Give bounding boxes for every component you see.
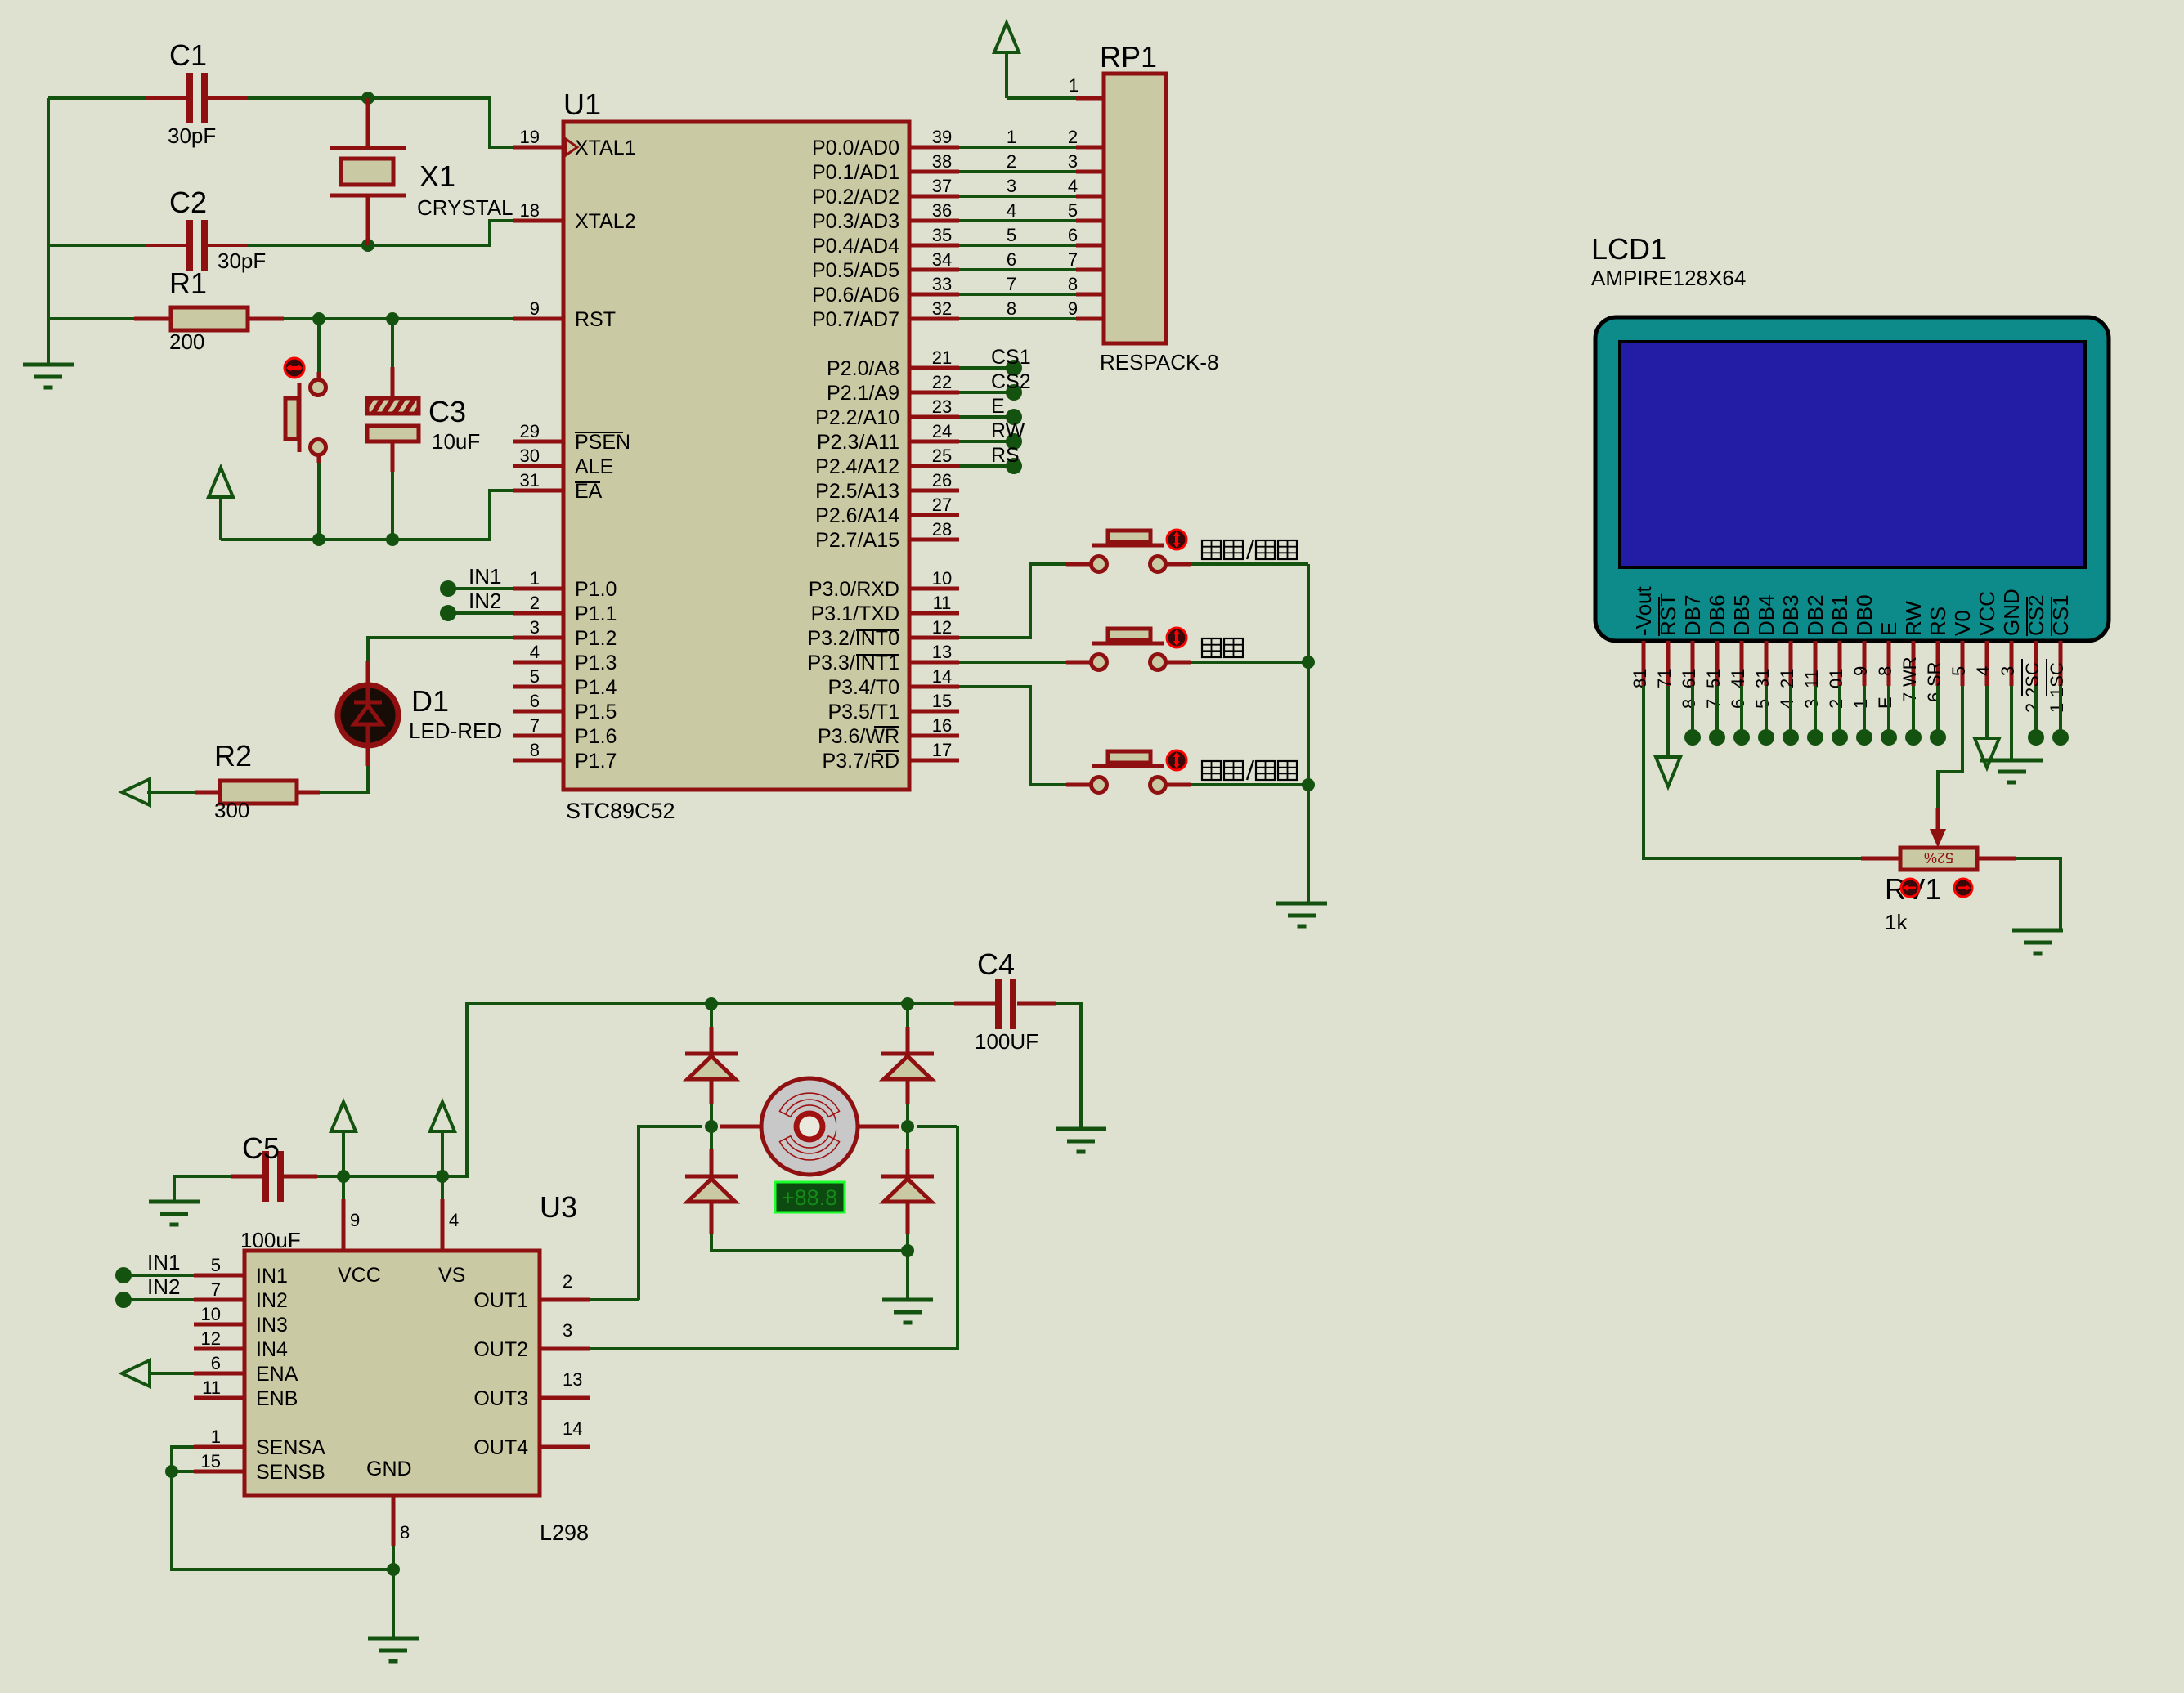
svg-text:1: 1 [2047, 703, 2067, 713]
power arrow down LCD VCC [1985, 686, 1989, 738]
svg-text:R1: R1 [169, 266, 207, 300]
pin 4 VS U3 [441, 1199, 445, 1251]
pin 1 RP1 [1076, 96, 1104, 101]
svg-text:01: 01 [1826, 669, 1846, 688]
svg-text:14: 14 [932, 666, 952, 687]
svg-text:4: 4 [1007, 200, 1016, 221]
svg-text:P0.7/AD7: P0.7/AD7 [812, 308, 899, 331]
wire LCD DB5 [1740, 686, 1743, 737]
ground buttons [1276, 902, 1327, 906]
pin 14 OUT4 U3 [540, 1445, 590, 1449]
svg-text:33: 33 [932, 274, 952, 294]
pin 25 P2.4/A12 U1 [909, 464, 959, 468]
svg-text:RS: RS [1926, 607, 1950, 636]
resistor R2 [296, 791, 320, 795]
pin 33 P0.6/AD6 U1 [909, 293, 959, 297]
svg-text:OUT1: OUT1 [473, 1289, 528, 1312]
pin 15 SENSB U3 [194, 1470, 244, 1474]
transistor-driver U3 body [244, 1251, 540, 1495]
pin 35 P0.4/AD4 U1 [909, 244, 959, 248]
wire D1 to R2 [366, 743, 370, 766]
ground RV1 [2012, 929, 2063, 933]
power arrow RP1 [1005, 51, 1008, 98]
svg-text:4: 4 [449, 1210, 459, 1230]
svg-text:6: 6 [530, 691, 540, 711]
svg-text:U3: U3 [540, 1190, 577, 1224]
pin 6 ENA U3 [194, 1372, 244, 1376]
svg-text:1: 1 [1007, 127, 1016, 147]
svg-text:9: 9 [350, 1210, 360, 1230]
wire IN2 U3 [123, 1298, 194, 1301]
svg-text:RW: RW [991, 419, 1025, 442]
svg-text:DB1: DB1 [1827, 594, 1852, 636]
svg-text:P2.6/A14: P2.6/A14 [815, 504, 899, 527]
wire LCD DB6 [1715, 686, 1719, 737]
svg-text:8: 8 [400, 1522, 410, 1543]
RV1 marker left [1901, 879, 1919, 897]
svg-text:35: 35 [932, 225, 952, 245]
svg-text:+88.8: +88.8 [782, 1185, 837, 1210]
wire C1 left [48, 96, 146, 100]
node VCC junction [337, 1170, 350, 1183]
pin 31 EA U1 [513, 489, 563, 493]
svg-text:IN1: IN1 [147, 1250, 180, 1274]
pin 26 P2.5/A13 U1 [909, 489, 959, 493]
capacitor C3 plus plate [367, 398, 419, 414]
svg-text:100uF: 100uF [240, 1228, 301, 1252]
wire button3 right [1167, 783, 1191, 787]
svg-text:23: 23 [932, 396, 952, 417]
svg-text:5: 5 [530, 666, 540, 687]
wire P3.3 to button2 [959, 661, 1066, 664]
svg-text:U1: U1 [563, 87, 601, 121]
pin 14 P3.4/T0 U1 [909, 685, 959, 689]
node button2 junction [1302, 656, 1315, 669]
svg-text:P0.3/AD3: P0.3/AD3 [812, 210, 899, 233]
wire LCD DB4 [1765, 686, 1768, 737]
button DAY/NIGHT [1092, 777, 1107, 793]
button DAY/NIGHT marker [1167, 750, 1186, 770]
svg-text:P0.5/AD5: P0.5/AD5 [812, 259, 899, 282]
wire LCD CS2 [2034, 686, 2038, 737]
svg-text:9: 9 [530, 298, 540, 319]
svg-text:AMPIRE128X64: AMPIRE128X64 [1591, 266, 1746, 290]
pin 3 P1.2 U1 [513, 636, 563, 640]
power arrow VCC [342, 1130, 345, 1176]
svg-text:DB6: DB6 [1705, 594, 1729, 636]
node IN1 terminal U3 [115, 1267, 132, 1283]
wire LCD E [1887, 686, 1890, 737]
svg-text:15: 15 [201, 1451, 221, 1471]
svg-text:IN3: IN3 [256, 1314, 288, 1337]
svg-text:61: 61 [1679, 669, 1699, 688]
button CLEAR [1092, 655, 1107, 670]
svg-text:1: 1 [1069, 75, 1079, 96]
terminal arrow ENA [122, 1360, 150, 1386]
svg-text:D1: D1 [411, 684, 449, 718]
svg-text:29: 29 [520, 421, 540, 441]
pin 5 P1.4 U1 [513, 685, 563, 689]
capacitor C5 [262, 1151, 269, 1202]
wire GND down [392, 1570, 395, 1638]
node motor right junction [901, 1120, 914, 1133]
svg-text:18: 18 [520, 200, 540, 221]
svg-text:5: 5 [1752, 699, 1773, 709]
svg-text:81: 81 [1630, 669, 1650, 688]
svg-text:1: 1 [530, 568, 540, 589]
wire LCD -Vout [1644, 686, 1861, 858]
svg-text:28: 28 [932, 519, 952, 540]
svg-text:GND: GND [366, 1458, 412, 1480]
svg-text:10: 10 [932, 568, 952, 589]
ground C5 [149, 1200, 200, 1204]
ground bridge [882, 1298, 933, 1302]
pin 5 IN1 U3 [194, 1274, 244, 1278]
wire IN1 [448, 587, 513, 590]
wire motor right stub [857, 1125, 899, 1129]
wire LCD DB1 [1838, 686, 1841, 737]
svg-text:OUT4: OUT4 [473, 1436, 528, 1459]
button CLEAR label [1202, 638, 1221, 657]
svg-text:OUT2: OUT2 [473, 1338, 528, 1361]
wire P3.4 to button3 [959, 687, 1066, 785]
button DAY/NIGHT label [1202, 761, 1221, 780]
pin 10 IN3 U3 [194, 1323, 244, 1327]
svg-text:9: 9 [1068, 298, 1078, 319]
svg-text:7: 7 [530, 715, 540, 736]
svg-text:E: E [991, 395, 1005, 418]
wire button bottom [317, 455, 321, 463]
wire diode D2 bottom [710, 1079, 714, 1104]
svg-text:37: 37 [932, 176, 952, 196]
wire diode D4 bottom [710, 1202, 714, 1234]
wire RV1 wiper [1936, 808, 1940, 835]
button START/PAUSE label [1202, 540, 1221, 559]
svg-text:L298: L298 [540, 1521, 589, 1545]
svg-text:P3.0/RXD: P3.0/RXD [809, 578, 899, 601]
svg-text:P2.0/A8: P2.0/A8 [827, 357, 899, 380]
svg-text:7: 7 [211, 1279, 221, 1300]
svg-text:P2.4/A12: P2.4/A12 [815, 455, 899, 478]
svg-text:P0.1/AD1: P0.1/AD1 [812, 161, 899, 184]
svg-text:6: 6 [211, 1353, 221, 1373]
svg-text:PSEN: PSEN [575, 431, 630, 454]
svg-text:2: 2 [2022, 703, 2043, 713]
pin 19 XTAL1 U1 [513, 146, 563, 150]
pin 7 IN2 U3 [194, 1298, 244, 1302]
pin 39 P0.0/AD0 U1 [909, 146, 959, 150]
wire LCD DB7 [1691, 686, 1694, 737]
svg-text:11: 11 [202, 1377, 221, 1398]
svg-text:7: 7 [1703, 699, 1724, 709]
node button3 junction [1302, 778, 1315, 791]
svg-text:8: 8 [530, 740, 540, 760]
wire C5 right [317, 1175, 343, 1178]
svg-text:P2.7/A15: P2.7/A15 [815, 529, 899, 552]
svg-text:8: 8 [1068, 274, 1078, 294]
svg-text:-Vout: -Vout [1631, 586, 1656, 636]
svg-text:RS: RS [991, 444, 1020, 467]
svg-text:10: 10 [201, 1304, 221, 1324]
pin 7 P1.6 U1 [513, 734, 563, 738]
svg-text:16: 16 [932, 715, 952, 736]
svg-text:6: 6 [1068, 225, 1078, 245]
svg-text:P2.3/A11: P2.3/A11 [817, 431, 899, 454]
pin 2 P1.1 U1 [513, 611, 563, 616]
button RESET [311, 380, 326, 396]
svg-text:XTAL2: XTAL2 [575, 210, 636, 233]
pin 9 VCC U3 [342, 1199, 346, 1251]
wire LCD DB3 [1789, 686, 1792, 737]
svg-text:XTAL1: XTAL1 [575, 137, 636, 159]
svg-text:P2.5/A13: P2.5/A13 [815, 480, 899, 503]
svg-text:GND: GND [1999, 589, 2024, 636]
node button-EA junction [312, 533, 325, 546]
terminal arrow R2 [122, 779, 150, 805]
svg-text:52%: 52% [1924, 849, 1953, 866]
button RESET marker [285, 358, 304, 378]
pin 28 P2.7/A15 U1 [909, 538, 959, 542]
svg-text:7: 7 [1007, 274, 1016, 294]
svg-text:ENA: ENA [256, 1363, 298, 1386]
svg-text:30: 30 [520, 446, 540, 466]
node C2-X1 junction [361, 239, 374, 252]
svg-text:R2: R2 [214, 739, 252, 773]
svg-text:31: 31 [520, 470, 540, 490]
wire C4 right [1056, 1004, 1081, 1129]
svg-text:10uF: 10uF [432, 429, 480, 454]
pin 23 P2.2/A10 U1 [909, 415, 959, 419]
svg-text:15: 15 [932, 691, 952, 711]
svg-text:30pF: 30pF [218, 249, 266, 273]
svg-text:C1: C1 [169, 38, 207, 72]
svg-text:P1.2: P1.2 [575, 627, 617, 650]
wire R2 left [147, 791, 195, 794]
pin 2 OUT1 U3 [540, 1298, 590, 1302]
svg-text:OUT3: OUT3 [473, 1387, 528, 1410]
node IN1 terminal [440, 580, 456, 597]
svg-text:IN2: IN2 [147, 1274, 180, 1299]
op-amp U1 body [563, 122, 909, 790]
capacitor C3 bottom plate [367, 426, 419, 441]
wire motor left stub [720, 1125, 762, 1129]
svg-text:C3: C3 [428, 395, 466, 428]
svg-text:P0.4/AD4: P0.4/AD4 [812, 235, 899, 258]
svg-text:P2.2/A10: P2.2/A10 [815, 406, 899, 429]
wire button1 right [1167, 562, 1191, 567]
ground C4 [1056, 1127, 1106, 1131]
svg-text:CRYSTAL: CRYSTAL [417, 195, 513, 220]
overline WR [874, 726, 899, 728]
power arrow EA net [219, 495, 222, 540]
pin 34 P0.5/AD5 U1 [909, 268, 959, 272]
wire LCD DB2 [1814, 686, 1817, 737]
svg-text:P1.1: P1.1 [575, 602, 617, 625]
svg-text:P1.7: P1.7 [575, 750, 617, 773]
wire left rail [47, 98, 50, 365]
pin 8 P1.7 U1 [513, 759, 563, 763]
svg-text:RW: RW [1901, 601, 1926, 636]
svg-text:SENSB: SENSB [256, 1461, 325, 1484]
svg-text:24: 24 [932, 421, 952, 441]
svg-text:LCD1: LCD1 [1591, 232, 1666, 266]
wire buttons ground rail [1307, 564, 1310, 903]
node bridge top-left junction [705, 997, 718, 1010]
svg-text:31: 31 [1752, 669, 1773, 688]
pin 37 P0.2/AD2 U1 [909, 195, 959, 199]
svg-text:DB2: DB2 [1803, 594, 1827, 636]
ground U3 [368, 1637, 419, 1641]
svg-text:6: 6 [1007, 249, 1016, 270]
svg-text:P2.1/A9: P2.1/A9 [827, 382, 899, 405]
svg-text:CS1: CS1 [991, 346, 1031, 369]
LCD1 body [1595, 317, 2109, 641]
wire P1.2 to D1 [368, 638, 513, 661]
svg-text:41: 41 [1728, 669, 1748, 688]
pin 11 P3.1/TXD U1 [909, 611, 959, 616]
svg-text:3: 3 [530, 617, 540, 638]
LCD1 screen [1620, 342, 2085, 567]
RV1 marker right [1954, 879, 1972, 897]
potentiometer RV1 [1861, 857, 1900, 861]
node VS junction [436, 1170, 449, 1183]
svg-text:E: E [1875, 696, 1895, 709]
wire C5 left [174, 1176, 231, 1202]
overline INT1 [856, 654, 899, 656]
pin 1 SENSA U3 [194, 1445, 244, 1449]
wire VCC pin drop [342, 1176, 345, 1199]
svg-text:32: 32 [932, 298, 952, 319]
svg-text:11: 11 [933, 593, 952, 613]
pin 36 P0.3/AD3 U1 [909, 219, 959, 223]
diode D4 [685, 1175, 738, 1179]
svg-text:34: 34 [932, 249, 952, 270]
svg-text:5: 5 [1007, 225, 1016, 245]
wire VS pin drop [441, 1176, 444, 1199]
button START/PAUSE marker [1167, 530, 1186, 549]
wire GND pin [392, 1546, 395, 1570]
wire EA net [221, 490, 513, 540]
pin 18 XTAL2 U1 [513, 219, 563, 223]
wire SENSA-SENSB [172, 1447, 194, 1471]
svg-text:4: 4 [1068, 176, 1078, 196]
wire diode D5 top [906, 1126, 909, 1149]
svg-text:P3.5/T1: P3.5/T1 [827, 701, 899, 723]
pin 12 P3.2/INT0 U1 [909, 636, 959, 640]
svg-text:VCC: VCC [338, 1264, 381, 1287]
svg-text:P1.5: P1.5 [575, 701, 617, 723]
svg-text:26: 26 [932, 470, 952, 490]
svg-text:100UF: 100UF [975, 1029, 1038, 1054]
svg-text:11: 11 [1801, 670, 1822, 688]
svg-text:C2: C2 [169, 186, 207, 219]
svg-text:8: 8 [1007, 298, 1016, 319]
svg-text:51: 51 [1703, 669, 1724, 688]
capacitor C4 [954, 1002, 995, 1006]
svg-text:P1.0: P1.0 [575, 578, 617, 601]
wire IN1 U3 [123, 1274, 194, 1277]
capacitor C2 [186, 220, 193, 271]
svg-text:71: 71 [1654, 669, 1675, 688]
svg-text:8: 8 [1875, 666, 1895, 676]
svg-text:C4: C4 [977, 947, 1015, 981]
node C1-X1 junction [361, 92, 374, 105]
svg-text:19: 19 [520, 127, 540, 147]
svg-text:ENB: ENB [256, 1387, 298, 1410]
svg-text:IN4: IN4 [256, 1338, 288, 1361]
svg-text:3: 3 [563, 1320, 572, 1341]
wire RV1 right [2016, 858, 2061, 930]
svg-text:9: 9 [1850, 666, 1871, 676]
node IN2 terminal [440, 605, 456, 621]
svg-text:VCC: VCC [1975, 591, 1999, 636]
svg-text:P0.2/AD2: P0.2/AD2 [812, 186, 899, 208]
node R1-button junction [312, 312, 325, 325]
pin 27 P2.6/A14 U1 [909, 513, 959, 517]
svg-text:36: 36 [932, 200, 952, 221]
wire VS to motor rail [442, 1004, 954, 1176]
svg-text:IN2: IN2 [469, 589, 501, 613]
svg-text:4: 4 [530, 642, 540, 662]
svg-text:2: 2 [1068, 127, 1078, 147]
wire LCD GND [2010, 686, 2013, 760]
pin 9 RST U1 [513, 317, 563, 321]
node GND junction [387, 1563, 400, 1576]
diode D2 [685, 1052, 738, 1056]
wire R1 left [48, 317, 134, 320]
svg-text:21: 21 [1777, 669, 1797, 688]
overline RD [876, 750, 899, 752]
wire VCC-VS [343, 1175, 442, 1178]
motor M1 commutator arcs [780, 1093, 840, 1117]
svg-text:39: 39 [932, 127, 952, 147]
wire LCD DB0 [1863, 686, 1866, 737]
svg-text:2: 2 [530, 593, 540, 613]
svg-text:P1.4: P1.4 [575, 676, 617, 699]
node IN2 terminal U3 [115, 1292, 132, 1308]
svg-text:22: 22 [932, 372, 952, 392]
svg-text:5: 5 [211, 1255, 221, 1275]
svg-text:27: 27 [932, 495, 952, 515]
wire LCD RW [1912, 686, 1915, 737]
svg-text:21: 21 [932, 347, 952, 368]
pin 1 P1.0 U1 [513, 587, 563, 591]
svg-text:7: 7 [1899, 692, 1920, 702]
svg-text:DB0: DB0 [1852, 594, 1877, 636]
svg-text:C5: C5 [242, 1131, 280, 1165]
resistor pack RP1 body [1104, 74, 1166, 343]
wire OUT1 to motor [590, 1298, 639, 1301]
svg-text:4: 4 [1777, 699, 1797, 709]
wire SENSB to GND rail [172, 1471, 393, 1570]
wire C1 to XTAL1 [247, 98, 513, 147]
svg-text:25: 25 [932, 446, 952, 466]
svg-text:7: 7 [1068, 249, 1078, 270]
svg-text:X1: X1 [419, 159, 455, 193]
pin 8 GND U3 [392, 1495, 396, 1546]
svg-text:DB4: DB4 [1754, 594, 1778, 636]
node motor left junction [705, 1120, 718, 1133]
pin 22 P2.1/A9 U1 [909, 391, 959, 395]
wire button2 right [1167, 661, 1191, 665]
pin 10 P3.0/RXD U1 [909, 587, 959, 591]
pin 3 OUT2 U3 [540, 1347, 590, 1351]
svg-text:1k: 1k [1885, 910, 1908, 934]
svg-text:CS2: CS2 [991, 370, 1031, 393]
svg-text:6: 6 [1728, 699, 1748, 709]
pin 17 P3.7/RD U1 [909, 759, 959, 763]
svg-text:RP1: RP1 [1100, 40, 1157, 74]
